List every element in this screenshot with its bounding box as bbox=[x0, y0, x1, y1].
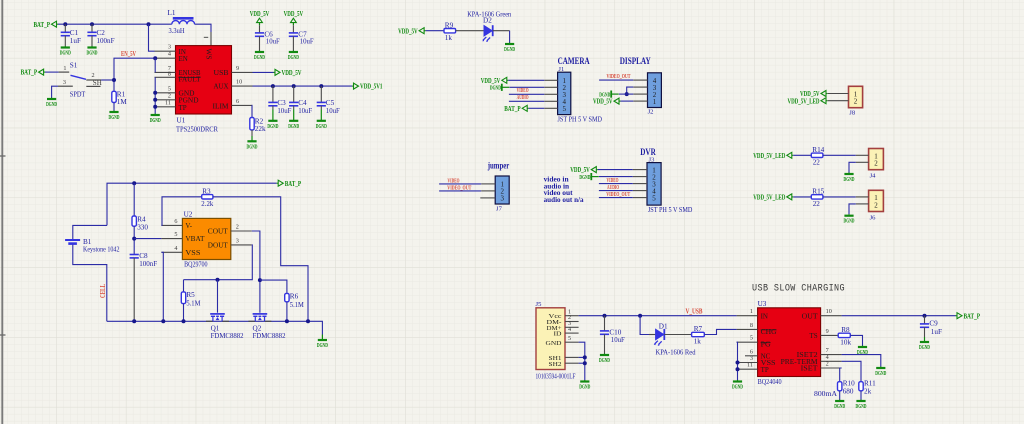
pin 4 J2 bbox=[633, 79, 647, 81]
svg-text:10: 10 bbox=[826, 308, 832, 315]
svg-text:SPDT: SPDT bbox=[70, 91, 86, 99]
svg-text:DGND: DGND bbox=[579, 384, 590, 391]
ground J6 bbox=[844, 214, 855, 225]
svg-text:DGND: DGND bbox=[109, 114, 120, 121]
svg-text:DOUT: DOUT bbox=[208, 242, 229, 250]
pin 1 J4 bbox=[856, 154, 869, 156]
svg-text:VDD_5V_LED: VDD_5V_LED bbox=[753, 152, 785, 160]
net port BAT_P battery bbox=[277, 180, 302, 188]
svg-text:10103594-0001LF: 10103594-0001LF bbox=[536, 372, 576, 380]
net port VDD_5V1 bbox=[352, 83, 383, 91]
svg-text:J8: J8 bbox=[849, 110, 856, 117]
svg-text:R14: R14 bbox=[812, 146, 824, 154]
wire COUT branch to R6 bbox=[260, 280, 287, 293]
svg-text:DGND: DGND bbox=[87, 50, 98, 57]
wire to R9 bbox=[426, 30, 444, 32]
pin 11 TP bbox=[737, 362, 769, 374]
capacitor C5 bbox=[317, 86, 340, 115]
svg-text:3: 3 bbox=[236, 237, 239, 244]
resistor R14 22 bbox=[811, 146, 824, 166]
svg-text:330: 330 bbox=[137, 224, 148, 232]
svg-text:IN: IN bbox=[761, 312, 768, 320]
wire DOUT to Q1 gate bbox=[184, 245, 253, 280]
capacitor C4 bbox=[289, 86, 312, 115]
svg-text:S1: S1 bbox=[70, 62, 78, 70]
svg-text:5.1M: 5.1M bbox=[290, 301, 305, 309]
junction bbox=[147, 22, 151, 26]
wire ISET to R10 bbox=[840, 368, 842, 382]
ground J4 bbox=[844, 173, 855, 184]
wire J7 pin2 bbox=[439, 190, 481, 192]
svg-text:J6: J6 bbox=[870, 215, 877, 222]
net port BAT_P switch bbox=[21, 69, 46, 77]
svg-text:FDMC8882: FDMC8882 bbox=[253, 332, 286, 340]
svg-text:VIDEO_OUT: VIDEO_OUT bbox=[606, 191, 630, 198]
svg-text:R15: R15 bbox=[812, 188, 824, 196]
power VDD_5V C7 bbox=[284, 10, 304, 25]
pin 3 J7 bbox=[480, 197, 495, 199]
svg-text:10uF: 10uF bbox=[266, 38, 280, 46]
wire J3 pin2 bbox=[599, 176, 633, 178]
resistor R1 1M bbox=[112, 91, 128, 106]
ground U3 bbox=[732, 380, 743, 391]
svg-text:22k: 22k bbox=[255, 125, 266, 133]
resistor R15 22 bbox=[811, 188, 824, 208]
junction bbox=[63, 22, 67, 26]
ground U1 bbox=[150, 114, 161, 125]
svg-text:J7: J7 bbox=[496, 206, 503, 213]
transistor Q2 FDMC8882 bbox=[248, 314, 285, 340]
capacitor C8 bbox=[130, 252, 158, 321]
wire J2 pin2 bbox=[619, 93, 633, 95]
wire BAT_P rail bbox=[58, 23, 172, 25]
wire BAT_P top rail bbox=[107, 183, 277, 225]
svg-text:USB: USB bbox=[214, 69, 229, 77]
pin 6 NC bbox=[745, 348, 771, 360]
svg-text:J1: J1 bbox=[558, 66, 564, 73]
junction bbox=[625, 92, 629, 96]
svg-text:PG: PG bbox=[761, 340, 771, 348]
svg-text:U2: U2 bbox=[184, 211, 193, 219]
wire R5 bottom bbox=[183, 304, 185, 322]
net port BAT_P J1 bbox=[504, 105, 529, 113]
pin 1 IN bbox=[737, 308, 768, 320]
capacitor C1 bbox=[61, 24, 81, 46]
pin 4 VSS bbox=[161, 245, 200, 257]
svg-text:BQ24040: BQ24040 bbox=[758, 378, 782, 386]
wire J7 pin1 bbox=[439, 183, 481, 185]
wire to D1 bbox=[640, 316, 649, 335]
svg-text:ISET: ISET bbox=[801, 365, 819, 373]
ground S1 bbox=[46, 98, 57, 109]
svg-text:VDD_5V: VDD_5V bbox=[593, 98, 613, 106]
ground C6 bbox=[254, 51, 265, 62]
wire R5 top bbox=[183, 280, 185, 292]
wire S1 pin2 to EN bbox=[101, 79, 114, 81]
wire to IN pin bbox=[149, 24, 155, 51]
svg-text:5: 5 bbox=[168, 85, 171, 92]
svg-text:1uF: 1uF bbox=[931, 328, 942, 336]
wire USB out bbox=[253, 71, 274, 73]
wire V- to R3 bbox=[161, 197, 201, 226]
wire L1 to SW pin bbox=[195, 24, 211, 45]
svg-text:1k: 1k bbox=[445, 34, 453, 42]
ground C9 bbox=[919, 337, 930, 351]
connector J3 JST PH 5 V SMD bbox=[647, 156, 692, 213]
svg-text:DGND: DGND bbox=[247, 143, 258, 150]
svg-text:R4: R4 bbox=[137, 215, 146, 223]
svg-text:1k: 1k bbox=[694, 338, 702, 346]
resistor R3 2.2k bbox=[201, 187, 213, 207]
svg-text:1uF: 1uF bbox=[70, 37, 81, 45]
svg-text:VIDEO: VIDEO bbox=[517, 87, 529, 94]
wire J5 GND to ground bbox=[579, 342, 585, 380]
junction bbox=[306, 319, 310, 323]
svg-text:10uF: 10uF bbox=[611, 336, 625, 344]
ground ISET2 bbox=[875, 367, 886, 378]
svg-text:2: 2 bbox=[91, 72, 94, 79]
pin 4 PRE-TERM bbox=[781, 354, 842, 366]
svg-text:DGND: DGND bbox=[150, 117, 161, 124]
net port VDD_5V J2 bbox=[593, 98, 621, 106]
svg-text:ID: ID bbox=[554, 331, 562, 338]
pin 3 J1 bbox=[544, 93, 557, 95]
svg-text:C9: C9 bbox=[929, 320, 938, 328]
ground C1 bbox=[60, 46, 71, 57]
wire R6 bottom bbox=[286, 302, 288, 322]
pin 3 IN bbox=[155, 44, 186, 56]
svg-text:5: 5 bbox=[174, 231, 177, 238]
wire R3 to rail right bbox=[213, 197, 308, 321]
resistor R11 2k bbox=[859, 379, 876, 395]
pin 5 J3 bbox=[633, 197, 647, 199]
svg-text:FDMC8882: FDMC8882 bbox=[211, 332, 244, 340]
connector J2 bbox=[648, 73, 662, 116]
svg-text:R8: R8 bbox=[841, 326, 850, 334]
connector J7 bbox=[495, 176, 509, 213]
svg-text:AUX: AUX bbox=[214, 83, 229, 91]
svg-text:DGND: DGND bbox=[599, 357, 610, 364]
connector J8 bbox=[849, 86, 863, 116]
svg-text:11: 11 bbox=[165, 99, 171, 106]
wire R9 to D2 bbox=[456, 30, 484, 32]
transistor Q1 FDMC8882 bbox=[206, 314, 244, 340]
svg-text:VDD_5V: VDD_5V bbox=[481, 77, 501, 85]
svg-text:D1: D1 bbox=[659, 322, 668, 330]
wire TS to R8 bbox=[838, 334, 841, 336]
svg-text:Keystone 1042: Keystone 1042 bbox=[83, 246, 120, 254]
svg-text:jumper: jumper bbox=[487, 162, 510, 172]
svg-text:CHG: CHG bbox=[761, 328, 777, 336]
ground C3 bbox=[267, 110, 278, 130]
pin 4 J5 ID bbox=[565, 326, 579, 333]
svg-text:DISPLAY: DISPLAY bbox=[620, 57, 651, 67]
wire J2 pin1 bbox=[621, 100, 634, 102]
svg-text:U1: U1 bbox=[177, 116, 186, 124]
capacitor C2 bbox=[87, 24, 114, 46]
svg-text:VDD_5V_LED: VDD_5V_LED bbox=[788, 97, 820, 105]
pin 5 GND bbox=[155, 85, 195, 97]
pin 9 TS bbox=[809, 328, 841, 340]
svg-text:L1: L1 bbox=[168, 9, 176, 17]
wire EN to ENUSB bbox=[154, 58, 156, 72]
pin 3 DOUT bbox=[208, 237, 252, 249]
wire PG VSS TP to ground bbox=[736, 342, 739, 380]
resistor R6 5.1M bbox=[285, 293, 305, 309]
svg-text:DGND: DGND bbox=[844, 218, 855, 225]
svg-text:GND: GND bbox=[546, 340, 562, 347]
pin 3 J5 DM+ bbox=[565, 320, 579, 327]
svg-text:R5: R5 bbox=[186, 291, 195, 299]
svg-text:1: 1 bbox=[653, 98, 657, 106]
svg-text:DGND: DGND bbox=[834, 403, 845, 410]
svg-text:R7: R7 bbox=[694, 325, 703, 333]
pin 7 ISET2 bbox=[797, 347, 842, 359]
svg-text:VIDEO: VIDEO bbox=[607, 177, 619, 184]
pin 1 J8 bbox=[828, 93, 849, 95]
wire BAT_P to S1 bbox=[45, 71, 59, 73]
resistor R8 10k bbox=[838, 326, 851, 347]
svg-text:DGND: DGND bbox=[856, 403, 867, 410]
svg-text:1M: 1M bbox=[117, 98, 128, 106]
net port VDD_5V_LED J8 bbox=[788, 97, 828, 105]
svg-text:ILIM: ILIM bbox=[213, 103, 230, 111]
connector J6 bbox=[869, 190, 884, 221]
svg-text:DGND: DGND bbox=[732, 384, 743, 391]
svg-text:800mA: 800mA bbox=[814, 390, 838, 398]
svg-text:5: 5 bbox=[750, 335, 753, 342]
svg-text:C5: C5 bbox=[326, 99, 335, 107]
svg-text:VDD_5V: VDD_5V bbox=[284, 10, 304, 18]
svg-text:DGND: DGND bbox=[317, 342, 328, 349]
pin 1 J6 bbox=[856, 196, 869, 198]
label V_USB bbox=[686, 308, 703, 315]
wire J2 pin3 jog bbox=[627, 87, 634, 94]
inductor L1 3.3uH bbox=[168, 9, 195, 35]
pin 2 J2 bbox=[633, 93, 647, 95]
wire AUX rail bbox=[253, 85, 353, 87]
wire J3 pin1 bbox=[598, 169, 633, 171]
wire J3 pin4 bbox=[599, 190, 633, 192]
svg-text:USB SLOW CHARGING: USB SLOW CHARGING bbox=[752, 283, 845, 295]
wire J5 SH1 bbox=[579, 356, 585, 358]
svg-text:EN_5V: EN_5V bbox=[121, 51, 136, 58]
wire bottom rail bbox=[107, 321, 323, 334]
svg-text:DGND: DGND bbox=[254, 54, 265, 61]
svg-text:J3: J3 bbox=[649, 156, 656, 163]
svg-text:R6: R6 bbox=[290, 293, 299, 301]
svg-text:DGND: DGND bbox=[60, 50, 71, 57]
junction bbox=[132, 319, 136, 323]
svg-text:2: 2 bbox=[826, 361, 829, 368]
svg-text:KPA-1606 Red: KPA-1606 Red bbox=[656, 349, 696, 357]
svg-text:22: 22 bbox=[813, 200, 821, 208]
svg-text:J5: J5 bbox=[536, 301, 543, 308]
wire PRE-TERM to R11 bbox=[842, 361, 861, 381]
wire J1 pin3 VIDEO bbox=[509, 93, 544, 95]
junction bbox=[90, 22, 94, 26]
svg-text:DGND: DGND bbox=[288, 54, 299, 61]
wire COUT to Q2 gate bbox=[252, 231, 260, 313]
svg-text:R9: R9 bbox=[445, 21, 454, 29]
ground J2 pin2 bbox=[599, 91, 618, 99]
pin 2 J4 bbox=[856, 161, 869, 163]
resistor R7 1k bbox=[692, 325, 705, 346]
svg-text:JST PH 5 V SMD: JST PH 5 V SMD bbox=[648, 206, 693, 214]
net port BAT_P out bbox=[956, 312, 981, 320]
pin 1 J2 bbox=[633, 100, 647, 102]
pin 11 TP bbox=[155, 99, 187, 112]
resistor R5 5.1M bbox=[181, 291, 201, 307]
svg-text:1: 1 bbox=[750, 308, 753, 315]
svg-text:VDD_5V: VDD_5V bbox=[398, 27, 418, 35]
pin 2 J1 bbox=[544, 86, 557, 88]
svg-text:VDD_5V: VDD_5V bbox=[282, 69, 303, 77]
pin 1 J3 bbox=[633, 169, 647, 171]
svg-text:TS: TS bbox=[809, 332, 817, 340]
pin 5 J1 bbox=[544, 107, 557, 109]
junction bbox=[182, 319, 186, 323]
ground R10 bbox=[834, 391, 845, 410]
wire R15 to J6 bbox=[823, 196, 856, 198]
svg-text:3: 3 bbox=[63, 79, 66, 86]
wire OUT rail bbox=[842, 315, 956, 317]
svg-text:4: 4 bbox=[168, 51, 171, 58]
svg-text:10uF: 10uF bbox=[298, 107, 312, 115]
pin 4 J3 bbox=[633, 190, 647, 192]
svg-text:COUT: COUT bbox=[208, 228, 229, 236]
pin 9 USB bbox=[214, 65, 253, 77]
pin 2 PGND bbox=[155, 92, 199, 104]
wire R4 to VBAT bbox=[133, 226, 135, 254]
svg-text:8: 8 bbox=[750, 322, 753, 329]
svg-text:2: 2 bbox=[874, 160, 878, 168]
wire J5 SH2 bbox=[579, 362, 585, 364]
svg-text:R10: R10 bbox=[843, 379, 855, 387]
diode D1 KPA-1606 Red bbox=[649, 322, 696, 356]
svg-text:BQ29700: BQ29700 bbox=[184, 261, 208, 269]
junction bbox=[736, 367, 740, 371]
svg-text:DGND: DGND bbox=[46, 101, 57, 108]
resistor R10 680 bbox=[838, 379, 856, 395]
svg-text:BAT_P: BAT_P bbox=[285, 180, 302, 188]
junction bbox=[153, 56, 157, 60]
junction bbox=[583, 361, 587, 365]
pin 10 AUX bbox=[214, 79, 253, 91]
svg-text:DGND: DGND bbox=[919, 344, 930, 351]
svg-text:EN: EN bbox=[179, 55, 188, 63]
svg-text:6: 6 bbox=[174, 218, 177, 225]
wire battery top bbox=[73, 225, 107, 239]
svg-text:VDD_5V_LED: VDD_5V_LED bbox=[753, 194, 785, 202]
ground C10 bbox=[599, 354, 610, 365]
svg-text:10uF: 10uF bbox=[326, 107, 340, 115]
ground J1 pin2 bbox=[490, 84, 509, 92]
svg-text:2: 2 bbox=[168, 92, 171, 99]
pin 6 ILIM bbox=[213, 98, 253, 111]
svg-text:TPS2500DRCR: TPS2500DRCR bbox=[176, 126, 218, 134]
wire VSS down bbox=[161, 252, 163, 321]
svg-text:3: 3 bbox=[168, 44, 171, 51]
svg-text:6: 6 bbox=[236, 98, 239, 105]
connector J5 10103594-0001LF bbox=[536, 301, 576, 380]
wire J3 pin5 bbox=[599, 197, 633, 199]
capacitor C9 bbox=[920, 316, 942, 337]
svg-text:9: 9 bbox=[826, 328, 829, 335]
pin 2 ISET bbox=[801, 361, 842, 373]
net port VDD_5V J1 bbox=[481, 77, 509, 85]
ground D2 bbox=[504, 43, 515, 54]
net port VDD_5V J8 bbox=[800, 90, 828, 98]
pin 1 J1 bbox=[544, 79, 557, 81]
connector J1 JST PH 5 V SMD bbox=[558, 66, 603, 123]
svg-text:10k: 10k bbox=[840, 339, 851, 347]
svg-text:DGND: DGND bbox=[288, 123, 299, 130]
svg-text:8: 8 bbox=[168, 70, 171, 77]
svg-text:9: 9 bbox=[236, 65, 239, 72]
svg-text:J2: J2 bbox=[648, 109, 654, 116]
pin 2 J3 bbox=[633, 176, 647, 178]
ground R8 bbox=[857, 346, 868, 357]
svg-text:4: 4 bbox=[174, 245, 177, 252]
svg-text:U3: U3 bbox=[758, 300, 767, 308]
svg-text:VSS: VSS bbox=[185, 249, 200, 257]
capacitor C6 bbox=[255, 25, 280, 50]
pin 4 J1 bbox=[544, 100, 557, 102]
ground R2 bbox=[247, 130, 258, 150]
wire Q1 gate drop bbox=[217, 280, 219, 313]
net port VDD_5V J3 bbox=[570, 166, 598, 174]
diode D2 KPA-1606 Green bbox=[467, 10, 511, 42]
svg-text:R11: R11 bbox=[864, 379, 876, 387]
svg-text:JST PH 5 V SMD: JST PH 5 V SMD bbox=[558, 115, 603, 123]
wire ISET2 to ground bbox=[842, 355, 881, 367]
svg-text:TP: TP bbox=[761, 366, 769, 374]
wire J1 pin2 bbox=[510, 86, 545, 88]
svg-text:DGND: DGND bbox=[504, 46, 515, 53]
svg-text:10uF: 10uF bbox=[300, 38, 314, 46]
svg-text:5: 5 bbox=[568, 335, 571, 342]
svg-text:4: 4 bbox=[568, 326, 571, 333]
connector J4 bbox=[869, 149, 884, 180]
svg-text:VDD_5V: VDD_5V bbox=[250, 10, 270, 18]
junction bbox=[153, 91, 157, 95]
junction bbox=[132, 237, 136, 241]
wire J4 pin2 to ground bbox=[849, 162, 856, 172]
junction bbox=[285, 319, 289, 323]
wire to R15 bbox=[793, 196, 811, 198]
pin 3 J3 bbox=[633, 183, 647, 185]
svg-text:2k: 2k bbox=[864, 388, 872, 396]
pin 5 J5 GND bbox=[565, 335, 579, 342]
pin 7 ENUSB bbox=[155, 65, 201, 77]
svg-text:FAULT: FAULT bbox=[179, 76, 202, 84]
svg-text:AUDIO: AUDIO bbox=[607, 184, 619, 191]
svg-text:2.2k: 2.2k bbox=[201, 200, 213, 208]
svg-text:2: 2 bbox=[874, 201, 878, 209]
pin 2 J7 bbox=[481, 190, 495, 192]
wire ILIM to R2 bbox=[251, 105, 254, 117]
pin 4 EN bbox=[155, 51, 188, 63]
svg-text:BAT_P: BAT_P bbox=[504, 105, 521, 113]
wire FAULT GND PGND TP to ground bbox=[154, 77, 156, 113]
ground C4 bbox=[288, 110, 299, 130]
power VDD_5V C6 bbox=[250, 10, 270, 25]
wire D2 to ground bbox=[493, 31, 510, 43]
svg-text:DGND: DGND bbox=[490, 85, 501, 92]
svg-text:5: 5 bbox=[562, 105, 566, 113]
svg-text:5: 5 bbox=[652, 194, 656, 202]
